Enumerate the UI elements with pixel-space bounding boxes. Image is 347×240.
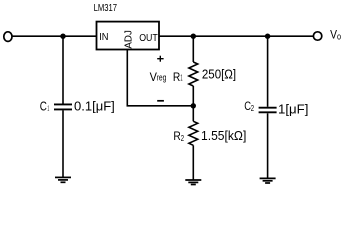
node B (R1 top junction) [191, 34, 196, 39]
svg-text:2: 2 [181, 133, 185, 143]
svg-text:1.55[kΩ]: 1.55[kΩ] [201, 128, 246, 143]
op-amp U1 LM317 body [97, 22, 160, 50]
label + (Vreg polarity) [157, 56, 163, 62]
capacitor C1 [54, 104, 72, 109]
output terminal [313, 32, 321, 40]
wire OUT pin to output terminal [159, 35, 313, 37]
wire C2 to ground [267, 113, 269, 178]
ground (C1) [55, 177, 71, 182]
label Vreg [150, 70, 167, 84]
node C (C2 top junction) [265, 34, 270, 39]
svg-text:o: o [337, 32, 341, 43]
label R2 [173, 129, 184, 143]
svg-text:R: R [173, 70, 180, 84]
node A (input / C1 junction) [60, 34, 65, 39]
label C1 [40, 100, 50, 114]
svg-text:1: 1 [180, 73, 182, 82]
svg-text:250[Ω]: 250[Ω] [202, 66, 236, 81]
wire input to LM317 IN pin [12, 35, 96, 37]
label Vo [330, 27, 341, 42]
label - (Vreg polarity) [157, 100, 164, 102]
svg-text:1: 1 [47, 105, 49, 112]
wire C1 to ground [62, 110, 64, 177]
label R1 [173, 70, 183, 84]
ground (R2) [185, 180, 201, 185]
wire node B to R1 [192, 36, 194, 62]
wire R1 to node D [192, 86, 194, 121]
resistor R2 [189, 121, 198, 145]
svg-text:C: C [40, 100, 47, 114]
svg-text:2: 2 [251, 103, 254, 113]
svg-text:ADJ: ADJ [124, 30, 135, 49]
resistor R1 [189, 62, 198, 86]
svg-text:OUT: OUT [139, 33, 158, 44]
wire ADJ pin to node D [127, 50, 193, 106]
wire R2 to ground [192, 145, 194, 180]
capacitor C2 [259, 108, 277, 113]
input terminal [4, 32, 12, 42]
wire node C to C2 [267, 36, 269, 107]
wire node A to C1 [62, 36, 64, 103]
svg-text:0.1[μF]: 0.1[μF] [74, 99, 115, 114]
label C2 [244, 99, 254, 113]
svg-text:1[μF]: 1[μF] [278, 102, 308, 117]
ground (C2) [260, 178, 276, 183]
svg-text:LM317: LM317 [94, 3, 118, 14]
node D (ADJ / R1 / R2 junction) [191, 103, 196, 108]
svg-text:IN: IN [99, 32, 108, 43]
svg-text:reg: reg [157, 73, 167, 84]
